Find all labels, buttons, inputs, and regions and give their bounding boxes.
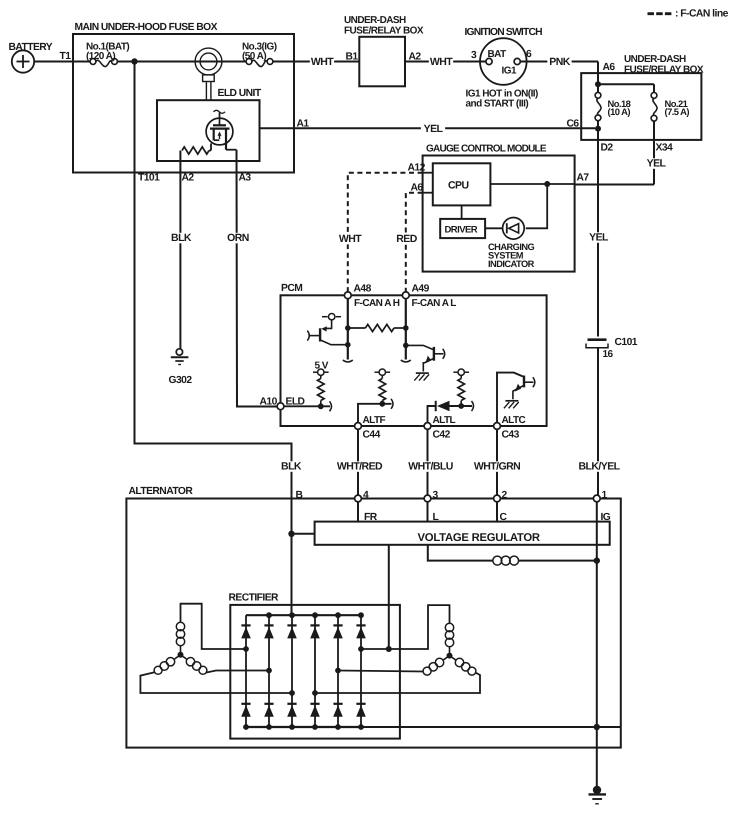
node T101 branch junction — [131, 58, 137, 64]
main under-hood fuse box — [73, 22, 294, 173]
svg-text:(50 A): (50 A) — [242, 51, 266, 62]
wire WHT to under-dash box B1 — [273, 51, 359, 68]
svg-text:WHT: WHT — [430, 56, 453, 68]
svg-text:YEL: YEL — [424, 123, 444, 135]
svg-text:INDICATOR: INDICATOR — [488, 259, 535, 269]
terminal 4 — [355, 490, 369, 502]
svg-text:C101: C101 — [615, 337, 638, 348]
svg-text:FUSE/RELAY BOX: FUSE/RELAY BOX — [624, 65, 704, 76]
terminal A10 — [260, 397, 305, 410]
terminal A48 — [344, 284, 399, 309]
node A6 branch — [595, 73, 654, 92]
svg-text:WHT: WHT — [311, 56, 334, 68]
svg-text:RED: RED — [396, 233, 417, 245]
svg-text:A49: A49 — [412, 284, 430, 295]
svg-text:ALTERNATOR: ALTERNATOR — [129, 486, 194, 497]
right stator winding — [315, 605, 480, 693]
alternator box — [126, 486, 620, 748]
svg-text:A2: A2 — [182, 173, 195, 184]
label A6 gauge — [411, 183, 424, 194]
svg-text:A7: A7 — [577, 173, 590, 184]
svg-text:WHT/RED: WHT/RED — [337, 461, 383, 473]
fuse No.1 (BAT) 120A — [86, 41, 129, 66]
pullup circle and resistor R2 (ELD) — [313, 369, 329, 406]
ELD sensor transistor U1 — [206, 110, 236, 150]
svg-text:1: 1 — [602, 490, 608, 501]
svg-text:A48: A48 — [354, 284, 372, 295]
wire X34 leg — [575, 121, 673, 184]
terminal C42 ALTL — [424, 415, 455, 441]
svg-text:BLK: BLK — [171, 232, 192, 244]
svg-text:RECTIFIER: RECTIFIER — [229, 593, 280, 604]
wire battery to fuse box, T1 — [34, 51, 92, 62]
under-dash fuse/relay box 2 — [581, 54, 704, 140]
svg-text:: F-CAN line: : F-CAN line — [675, 9, 729, 20]
svg-text:B: B — [296, 490, 303, 501]
ELD current sensor ring — [195, 48, 222, 100]
transistor Q3 ALTC with slash ground — [497, 373, 535, 423]
node indicator branch — [544, 181, 550, 187]
ground G1 — [589, 786, 607, 804]
terminal C43 ALTC — [494, 415, 526, 441]
svg-text:WHT/GRN: WHT/GRN — [474, 461, 520, 473]
label C — [500, 512, 508, 523]
svg-text:BLK/YEL: BLK/YEL — [578, 461, 620, 473]
svg-text:IG1: IG1 — [502, 66, 517, 77]
svg-text:GAUGE CONTROL MODULE: GAUGE CONTROL MODULE — [426, 144, 547, 155]
driver — [440, 205, 485, 238]
svg-text:A6: A6 — [603, 62, 616, 73]
wire A2 BLK to G302 — [169, 151, 195, 349]
svg-text:(7.5 A): (7.5 A) — [665, 106, 690, 117]
wire C to regulator — [496, 502, 498, 522]
wire B inside + node to regulator — [288, 495, 314, 615]
svg-text:and START (III): and START (III) — [466, 99, 529, 110]
battery — [9, 42, 53, 73]
wire BLK/YEL to alternator ig — [575, 348, 624, 495]
terminal A49 — [402, 284, 456, 309]
svg-text:C42: C42 — [433, 430, 451, 441]
node field to IG — [594, 557, 600, 727]
svg-text:CPU: CPU — [448, 180, 469, 192]
svg-text:G302: G302 — [169, 375, 193, 386]
label FR — [364, 512, 378, 523]
wire F-CAN H internal — [343, 299, 353, 362]
transistor Q1 PNP with 5V supply circle — [307, 314, 350, 348]
wire regulator sense drop — [388, 545, 390, 649]
gauge control module box — [423, 144, 575, 272]
svg-text:X34: X34 — [656, 143, 673, 154]
under-dash fuse/relay box 1 — [344, 15, 424, 86]
wire to chassis ground — [596, 727, 598, 786]
left stator winding — [140, 604, 292, 693]
svg-text:6: 6 — [526, 49, 532, 60]
resistor in ELD unit — [182, 147, 211, 154]
pullup circle and resistor R4 (ALTL) — [453, 369, 469, 406]
svg-text:VOLTAGE REGULATOR: VOLTAGE REGULATOR — [418, 532, 540, 544]
resistor R1 CAN termination — [345, 324, 409, 331]
label L — [433, 512, 439, 523]
wire IG through to field — [596, 502, 598, 561]
wire WHT/GRN — [473, 429, 522, 495]
wire D2 YEL down — [586, 140, 610, 337]
svg-text:UNDER-DASH: UNDER-DASH — [344, 15, 406, 26]
svg-text:A10: A10 — [260, 397, 278, 408]
svg-text:ALTL: ALTL — [433, 415, 456, 426]
terminal C44 ALTF — [355, 415, 386, 441]
svg-text:ALTC: ALTC — [502, 415, 526, 426]
svg-text:3: 3 — [433, 490, 439, 501]
svg-text:D2: D2 — [601, 143, 614, 154]
wire T101 battery feed to alternator B — [135, 62, 304, 496]
wire WHT/BLU — [406, 429, 455, 495]
svg-text:YEL: YEL — [647, 158, 667, 170]
terminal B — [296, 490, 303, 501]
wire FR to regulator — [357, 502, 359, 522]
svg-text:ALTF: ALTF — [363, 415, 386, 426]
svg-text:IGNITION SWITCH: IGNITION SWITCH — [465, 27, 543, 38]
svg-text:T101: T101 — [138, 173, 160, 184]
terminal 1 — [593, 490, 607, 502]
svg-text:T1: T1 — [60, 51, 72, 62]
svg-text:16: 16 — [603, 349, 614, 360]
wire WHT/RED — [335, 429, 384, 495]
svg-text:B1: B1 — [346, 51, 359, 62]
ignition switch — [465, 27, 543, 110]
svg-text:(120 A): (120 A) — [86, 51, 115, 62]
legend F-CAN line — [648, 9, 729, 20]
wire A1 YEL to C6 — [260, 119, 596, 136]
wire ALTF internal — [358, 399, 393, 423]
svg-text:PCM: PCM — [281, 283, 302, 294]
svg-text:A3: A3 — [239, 173, 252, 184]
voltage regulator box — [315, 522, 610, 545]
rectifier box — [229, 593, 400, 739]
field coil L1 — [493, 556, 597, 565]
pullup circle and resistor R3 (ALTF) — [375, 369, 391, 404]
fuse No.18 10A — [595, 92, 631, 120]
terminal 2 — [494, 490, 508, 502]
svg-text:YEL: YEL — [589, 232, 609, 244]
rectifier diodes D2-D13 — [241, 625, 366, 716]
svg-text:MAIN UNDER-HOOD FUSE BOX: MAIN UNDER-HOOD FUSE BOX — [75, 22, 218, 33]
svg-text:PNK: PNK — [549, 56, 570, 68]
svg-text:FUSE/RELAY BOX: FUSE/RELAY BOX — [344, 26, 424, 37]
svg-text:UNDER-DASH: UNDER-DASH — [624, 54, 686, 65]
phase tap nodes — [243, 646, 364, 696]
svg-text:2: 2 — [502, 490, 508, 501]
wire A3 ORN to PCM A10 — [226, 150, 277, 407]
svg-text:F-CAN A L: F-CAN A L — [412, 298, 457, 309]
svg-text:C44: C44 — [363, 430, 381, 441]
svg-text:F-CAN A H: F-CAN A H — [354, 298, 400, 309]
terminal 3 — [424, 490, 438, 502]
svg-text:A2: A2 — [409, 51, 422, 62]
label 5 V — [315, 361, 329, 372]
label T101 — [138, 173, 160, 184]
svg-text:DRIVER: DRIVER — [445, 225, 478, 236]
wire F-CAN L internal — [401, 299, 411, 362]
wire CPU to A7 line — [490, 173, 589, 185]
svg-text:WHT/BLU: WHT/BLU — [408, 461, 453, 473]
label IG — [601, 512, 611, 523]
CPU U2 — [423, 163, 491, 205]
connector C101 — [586, 337, 638, 360]
wire bottom bus to ground line — [361, 724, 621, 730]
wire PNK to A6 corner — [527, 56, 616, 73]
svg-text:A1: A1 — [297, 119, 310, 130]
label D2 — [601, 143, 614, 154]
svg-text:BLK: BLK — [281, 461, 302, 473]
svg-text:(10 A): (10 A) — [608, 106, 631, 117]
svg-text:WHT: WHT — [339, 233, 362, 245]
node C6 — [567, 119, 602, 140]
wire fuse1 to ELD ring — [117, 61, 246, 63]
PCM box — [281, 283, 547, 426]
charging system indicator LED — [485, 184, 547, 269]
ground G302 — [169, 349, 193, 386]
rectifier bottom bus — [243, 724, 364, 730]
ELD unit box — [157, 88, 262, 161]
svg-text:C43: C43 — [502, 430, 520, 441]
dashed F-CAN RED wire A6 to A49 — [394, 193, 422, 292]
rectifier diode columns — [246, 615, 361, 727]
wire regulator to field coil — [428, 545, 493, 561]
svg-text:ELD: ELD — [286, 397, 305, 408]
fuse No.3 (IG) 50A — [242, 41, 277, 66]
dashed F-CAN WHT wire A12 to A48 — [338, 173, 423, 292]
svg-text:BAT: BAT — [488, 49, 507, 60]
svg-text:BATTERY: BATTERY — [9, 42, 53, 53]
label A12 — [408, 163, 426, 174]
svg-text:4: 4 — [363, 490, 369, 501]
diode D1 ALTL — [428, 401, 474, 423]
svg-text:3: 3 — [471, 50, 477, 61]
wire ELD A10 line — [284, 401, 332, 411]
svg-text:ORN: ORN — [227, 232, 249, 244]
transistor Q2 CAN-L with slash ground — [403, 343, 445, 381]
wire WHT box1 A2 to ignition switch — [405, 51, 481, 68]
fuse No.21 7.5A — [651, 93, 689, 122]
svg-text:ELD UNIT: ELD UNIT — [218, 88, 262, 99]
rectifier top bus — [246, 612, 364, 618]
wire L to regulator — [427, 502, 429, 522]
